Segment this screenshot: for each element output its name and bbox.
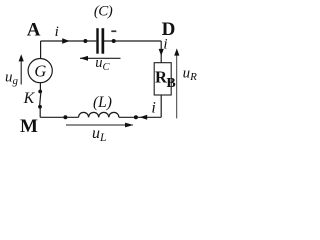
source G circle	[28, 59, 52, 83]
svg-text:G: G	[34, 62, 46, 81]
inductor L coil	[79, 112, 119, 117]
voltage arrow uC (points left)	[80, 57, 121, 59]
svg-text:i: i	[55, 24, 59, 40]
svg-text:uL: uL	[92, 125, 106, 144]
svg-text:M: M	[20, 116, 38, 137]
current arrow i bottom (points left)	[140, 115, 148, 120]
svg-text:uR: uR	[183, 65, 198, 83]
voltage arrow uR (points up)	[176, 54, 178, 119]
wire right lower (resistor to bottom)	[160, 95, 162, 117]
wire switch to M corner	[39, 107, 41, 118]
polarity minus sign	[111, 30, 116, 32]
switch K top dot	[38, 90, 42, 94]
svg-text:K: K	[23, 90, 36, 107]
switch K bottom dot	[38, 105, 42, 109]
wire bottom left segment	[40, 116, 78, 118]
switch K blade	[40, 92, 41, 106]
wire right upper (D to resistor)	[160, 41, 162, 63]
junction dot inductor right	[134, 115, 138, 119]
svg-text:A: A	[27, 19, 41, 40]
voltage arrow ug (points up)	[20, 61, 22, 85]
svg-text:(L): (L)	[93, 94, 112, 111]
svg-text:i: i	[163, 37, 167, 53]
junction dot inductor left	[63, 115, 67, 119]
current arrow i top	[62, 38, 69, 44]
resistor RB box	[154, 63, 171, 95]
wire bottom right segment	[119, 116, 161, 118]
capacitor C right plate	[102, 28, 105, 54]
capacitor C left plate	[96, 28, 98, 54]
junction dot cap left	[83, 39, 87, 43]
wire top left segment	[41, 40, 97, 42]
wire left upper (A to source)	[40, 41, 42, 59]
svg-text:i: i	[151, 99, 155, 116]
wire top right segment	[104, 40, 161, 42]
junction dot cap right	[112, 39, 116, 43]
wire source to switch	[39, 83, 41, 92]
voltage arrow uL (points right)	[66, 124, 133, 126]
svg-text:(C): (C)	[94, 4, 113, 20]
svg-text:ug: ug	[5, 69, 19, 87]
current arrow i right (points down)	[159, 49, 164, 56]
